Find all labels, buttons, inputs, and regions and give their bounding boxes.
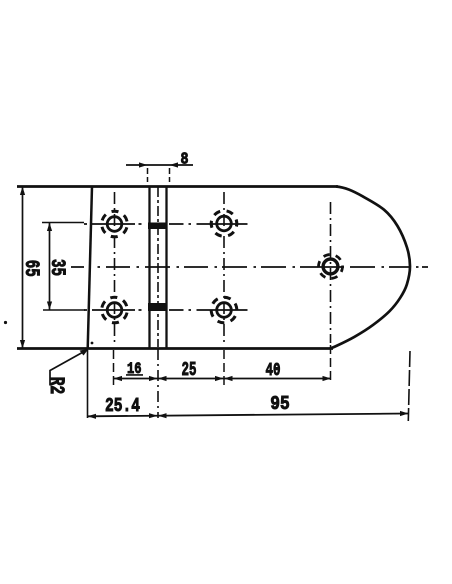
hole A top-left: bore circle — [107, 217, 122, 232]
dimension 8 line — [126, 164, 193, 166]
dimension 95 right arrowhead — [400, 411, 409, 416]
upper row centerline — [84, 223, 248, 225]
svg-text:R2: R2 — [44, 377, 67, 395]
dimension 35 lower extension line — [43, 309, 85, 311]
dimension 16 right arrowhead — [149, 376, 158, 381]
extension line below plate at hole column 2 — [223, 350, 225, 389]
hole E thread dashed circle — [314, 250, 347, 283]
hinge knuckle right line — [165, 187, 167, 348]
end hole column centerline — [330, 202, 332, 343]
dimension 35 bottom arrowhead — [47, 302, 52, 310]
dimension 16 underline — [126, 374, 143, 376]
hole column 1 centerline — [114, 192, 116, 343]
hinge pin centerline — [157, 187, 159, 347]
svg-text:40: 40 — [266, 361, 281, 381]
hole column 2 centerline — [223, 192, 225, 343]
hinge weld band upper — [148, 223, 168, 230]
extension line below plate at hinge centerline — [157, 349, 159, 418]
svg-text:95: 95 — [270, 393, 290, 415]
hinge weld band lower — [148, 303, 168, 311]
hole C bottom-left: bore circle — [107, 303, 122, 318]
hole A thread dashed circle — [99, 208, 130, 239]
R2 leader line — [50, 351, 85, 386]
hole E end: bore circle — [323, 259, 338, 274]
hole B thread dashed circle — [206, 205, 242, 241]
dimension 35 line — [49, 223, 51, 310]
lower row centerline — [84, 309, 248, 311]
extension line below plate at hole column 1 — [113, 350, 115, 385]
svg-text:8: 8 — [181, 150, 189, 169]
middle horizontal centerline — [71, 266, 428, 268]
dimension 65 bottom arrowhead — [20, 340, 25, 349]
dimension 40 left arrowhead — [224, 376, 233, 381]
stray scan dot left margin — [4, 321, 7, 324]
dimension 25 right arrowhead — [215, 376, 224, 381]
dimension 8 left extension line — [147, 168, 149, 182]
hole C thread dashed circle — [98, 294, 131, 327]
chain dimension line 16-25-40 — [114, 378, 332, 380]
extension line below plate at end hole column — [330, 345, 332, 384]
dimension 8 left arrowhead — [139, 162, 148, 167]
hole D thread dashed circle — [207, 293, 242, 328]
extension line below plate at plate left edge — [87, 350, 89, 418]
dimension 65 top arrowhead — [20, 187, 25, 196]
dimension 16 left arrowhead — [114, 376, 123, 381]
svg-text:25.4: 25.4 — [105, 395, 140, 417]
svg-text:25: 25 — [182, 359, 197, 381]
plate rounded right end arc — [330, 187, 410, 349]
dimension 25 left arrowhead — [158, 376, 167, 381]
extension line below plate at right tangent — [408, 351, 410, 421]
plate bottom edge with extension line to 65-dimension — [17, 347, 333, 350]
dimension 8 right extension line — [169, 168, 171, 182]
dimension 25.4 left arrowhead — [88, 414, 97, 419]
plate top edge with extension line to 65-dimension — [17, 185, 338, 188]
dimension 8 right arrowhead — [170, 162, 179, 167]
dimension line 25.4 / 95 — [88, 414, 409, 417]
R2 leader arrowhead — [80, 349, 89, 356]
dimension 35 top arrowhead — [47, 223, 52, 231]
plate left edge — [88, 187, 92, 349]
dimension 40 right arrowhead — [323, 376, 332, 381]
hole D bottom-right: bore circle — [217, 303, 232, 318]
hole B top-right: bore circle — [217, 216, 232, 231]
dimension 25.4 right arrowhead — [149, 413, 158, 418]
dimension 95 left arrowhead — [158, 413, 167, 418]
svg-text:65: 65 — [19, 260, 42, 277]
dimension 35 upper extension line — [42, 222, 84, 224]
hinge knuckle left line — [148, 187, 150, 348]
svg-text:35: 35 — [45, 259, 68, 276]
stray dot near bottom-left corner of plate — [91, 342, 94, 345]
dimension 65 line — [22, 187, 24, 348]
